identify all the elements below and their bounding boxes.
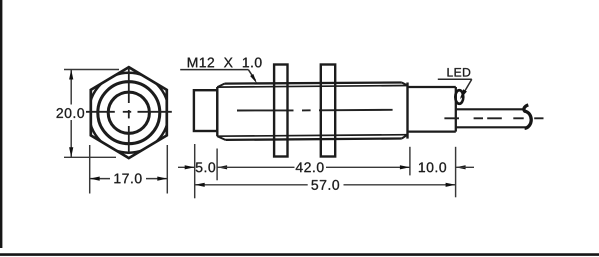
ext line C (x=409.9) xyxy=(409,147,411,176)
dim 17.0 arrowheads xyxy=(90,177,100,181)
cable break end xyxy=(524,105,531,128)
dim 10.0 right tail xyxy=(456,166,474,168)
border left line xyxy=(0,0,2,248)
dim 42.0 right arrowhead (shared with 10.0 left) xyxy=(400,165,410,169)
nut 2 on barrel xyxy=(321,65,335,157)
cable top line xyxy=(456,108,526,110)
ext line A (x=194.7) xyxy=(194,144,196,198)
barrel outer top line xyxy=(225,83,402,84)
hex nut front view: hexagon body xyxy=(91,67,167,158)
dim 57.0 right arrowhead xyxy=(446,183,456,187)
barrel left edge xyxy=(216,87,218,136)
cable centerline dash-dot xyxy=(444,117,543,119)
dim 17.0 right extension line xyxy=(166,145,168,194)
dim 20.0 dimension line xyxy=(70,70,72,158)
M12 leader underline xyxy=(180,69,248,71)
nut 1 on barrel xyxy=(274,65,287,157)
dim 5.0 left tail xyxy=(178,166,195,168)
dim 5.0 text xyxy=(196,162,215,172)
hex nut thread bore circle xyxy=(108,92,149,133)
dim 17.0 text xyxy=(114,173,141,183)
side view centerline xyxy=(237,109,393,112)
hex nut chamfer circle xyxy=(98,82,160,144)
ext line D (x=455.6) xyxy=(455,147,457,198)
LED leader arrowhead xyxy=(460,89,467,99)
dim 20.0 top extension line xyxy=(64,69,119,71)
border bottom line xyxy=(0,253,599,256)
barrel outer bottom line xyxy=(225,139,401,140)
barrel chamfer top-right xyxy=(402,83,408,86)
LED label text xyxy=(448,68,471,76)
barrel inner top thread line xyxy=(217,86,407,88)
dim 10.0 right arrowhead xyxy=(456,165,466,169)
LED leader underline xyxy=(438,78,472,80)
cable bottom line xyxy=(456,126,526,128)
barrel chamfer bottom-left xyxy=(217,136,225,140)
M12 leader arrowhead xyxy=(250,74,257,84)
dim 17.0 left extension line xyxy=(89,145,91,194)
barrel chamfer top-left xyxy=(217,84,224,88)
rear housing bottom edge xyxy=(408,130,456,132)
front view horizontal centerline xyxy=(86,111,172,113)
dim 5.0 left arrowhead xyxy=(185,165,195,169)
barrel chamfer bottom-right xyxy=(402,135,408,139)
label M12 X 1.0 text xyxy=(188,58,262,68)
rear housing top edge xyxy=(408,86,456,88)
dim 42.0 text xyxy=(296,162,324,172)
dim 10.0 text xyxy=(419,162,446,172)
ext line B (x=217.1) xyxy=(216,149,218,181)
M12 leader diagonal xyxy=(248,70,255,81)
sensor tip rectangle xyxy=(194,90,217,131)
barrel inner bottom thread line xyxy=(217,135,407,137)
front view vertical centerline xyxy=(128,69,130,153)
rear housing right edge xyxy=(455,87,457,132)
dim 42.0 left arrowhead (shared with 5.0 right) xyxy=(217,165,227,169)
dim 57.0 dimension line xyxy=(195,184,456,186)
dim 20.0 bottom extension line xyxy=(64,156,116,158)
dim 57.0 left arrowhead xyxy=(195,183,205,187)
dim 57.0 text xyxy=(311,180,339,190)
LED leader diagonal xyxy=(461,79,472,97)
barrel right end edge xyxy=(406,83,408,139)
dim 20.0 arrowheads xyxy=(69,70,73,80)
dim 42.0 dimension line xyxy=(217,166,410,168)
LED indicator oval xyxy=(455,90,463,104)
dim 20.0 text xyxy=(57,108,84,118)
dim 17.0 dimension line xyxy=(90,178,168,180)
hex nut corner chamfer arcs (clipped circle) xyxy=(89,73,169,153)
